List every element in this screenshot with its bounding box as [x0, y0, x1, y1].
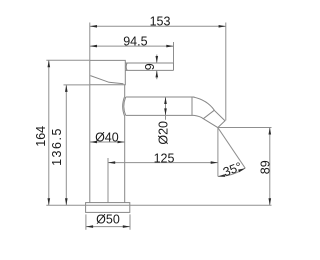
svg-text:9: 9 [143, 63, 157, 70]
dim 125 line [108, 162, 218, 164]
arrow 89 bottom [269, 198, 272, 205]
lever rod bottom [125, 69, 173, 71]
svg-text:Ø20: Ø20 [156, 121, 170, 145]
arrow d50 left [86, 225, 93, 228]
arrow arc left [218, 174, 225, 177]
arrow 153 left [90, 25, 97, 28]
svg-text:Ø50: Ø50 [96, 212, 120, 226]
arrow 94.5 right [166, 45, 173, 48]
arrow 136.5 top [65, 85, 68, 92]
dim 136.5 extension top [64, 84, 90, 86]
body right edge upper [124, 85, 126, 97]
dim 125 extension left [107, 158, 109, 203]
spout tip [203, 110, 225, 127]
arrow d40 left [90, 141, 97, 144]
svg-text:136.5: 136.5 [50, 127, 64, 166]
dim 94.5 extension right [173, 42, 175, 63]
arrow 9 bottom [156, 70, 159, 77]
dim 153 extension right [225, 23, 227, 121]
baseline extension line [46, 204, 271, 206]
arrow d20 bottom [164, 108, 167, 115]
cap slant line [90, 76, 123, 84]
svg-text:125: 125 [154, 151, 175, 165]
dim d40 line [90, 141, 125, 143]
arrow 136.5 bottom [65, 198, 68, 205]
angle 35 diagonal leg [218, 128, 245, 169]
svg-text:94.5: 94.5 [123, 34, 147, 48]
angle 35 arc [218, 168, 245, 176]
svg-text:164: 164 [34, 126, 48, 147]
elbow inner curve [194, 115, 203, 118]
svg-text:89: 89 [258, 160, 272, 174]
dim 153 line [90, 25, 226, 27]
dim 136.5 line [65, 85, 67, 205]
arrow d50 right [123, 225, 130, 228]
arrow 153 right [219, 25, 226, 28]
arrow 125 left [108, 161, 115, 164]
dim 94.5 line [90, 45, 174, 47]
spout seam [191, 97, 193, 115]
arrow 164 bottom [48, 198, 51, 205]
arrow 125 right [211, 161, 218, 164]
arrow 94.5 left [90, 45, 97, 48]
dim 164 line [48, 60, 50, 205]
angle 35 vertical leg [217, 128, 219, 177]
arrow arc right [238, 168, 245, 172]
arrow d20 top [164, 97, 167, 104]
dim d20 line [165, 97, 167, 120]
dim d50 extension left [85, 214, 87, 229]
body left edge [89, 85, 91, 203]
body right edge lower [124, 116, 126, 202]
dim 164 extension top [46, 59, 89, 61]
faucet cap (lever base) outline [90, 60, 126, 84]
lever rod top [125, 62, 173, 64]
arrow 9 top [156, 56, 159, 63]
svg-text:35°: 35° [221, 160, 244, 180]
spout bottom line [126, 114, 194, 116]
lever rod end [173, 42, 175, 70]
svg-text:Ø40: Ø40 [95, 130, 119, 144]
arrow 164 top [48, 60, 51, 67]
dim 89 line [269, 128, 271, 206]
arrow 89 top [269, 128, 272, 135]
dim 153 extension left [89, 23, 91, 61]
arrow d40 right [118, 141, 125, 144]
spout top line [126, 96, 195, 98]
spout junction inner arc [124, 97, 126, 115]
elbow outer curve [193, 97, 214, 110]
spout junction outer arc [123, 96, 125, 116]
lever rod fillet [126, 63, 127, 70]
dim d50 line [86, 226, 130, 228]
dim 89 extension top [218, 127, 272, 129]
svg-text:153: 153 [150, 15, 171, 29]
dim d50 extension right [129, 214, 131, 229]
base flange [86, 203, 130, 213]
dim 9 upper segment [156, 55, 158, 64]
dim 9 lower segment [156, 70, 158, 79]
